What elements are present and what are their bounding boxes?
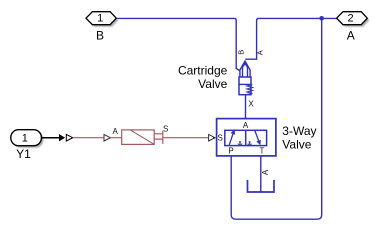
- svg-text:A: A: [243, 121, 249, 130]
- cartridge valve spring: [247, 85, 253, 95]
- pilot block port triangle A: [104, 134, 110, 141]
- 3-way valve divider: [245, 130, 247, 145]
- svg-text:S: S: [163, 124, 168, 133]
- svg-text:1: 1: [97, 13, 103, 25]
- red wire to 3-way valve: [163, 137, 208, 139]
- valve left cell blocked port: [238, 143, 242, 145]
- svg-text:Cartridge: Cartridge: [178, 64, 228, 78]
- red wire into block: [111, 137, 122, 139]
- valve S arrow tip mark: [213, 137, 215, 139]
- wire B horizontal/vertical from port B to cartridge valve: [116, 18, 240, 71]
- cartridge valve poppet: [240, 61, 250, 77]
- svg-text:A: A: [347, 29, 355, 43]
- wire P loop: junction down right side, bottom, up to valve P: [231, 18, 322, 219]
- svg-text:T: T: [259, 147, 264, 156]
- svg-text:S: S: [218, 133, 223, 142]
- svg-text:P: P: [228, 147, 233, 156]
- svg-text:A: A: [113, 127, 119, 136]
- svg-text:3-Way: 3-Way: [282, 124, 316, 138]
- port A hexagon 2: [337, 12, 368, 25]
- port B hexagon 1: [86, 12, 116, 25]
- svg-text:A: A: [256, 50, 265, 55]
- port A shadow: [339, 14, 370, 27]
- converter port triangle: [66, 134, 72, 141]
- port Y1 shadow: [13, 132, 44, 148]
- svg-text:2: 2: [348, 13, 354, 25]
- svg-text:Valve: Valve: [282, 138, 311, 152]
- valve right cell arrow A-T: [255, 130, 259, 140]
- svg-text:B: B: [236, 50, 245, 55]
- port B shadow: [88, 14, 118, 27]
- svg-text:Valve: Valve: [198, 77, 227, 91]
- cartridge valve chamber divider: [239, 83, 251, 85]
- signal wire from Y1: [41, 137, 59, 139]
- valve S port triangle: [209, 134, 215, 141]
- pilot block diagonal: [131, 130, 154, 144]
- pilot block body: [122, 130, 155, 145]
- svg-text:B: B: [96, 29, 104, 43]
- port Y1 oval 1: [11, 130, 42, 146]
- wire T drain from 3-way valve to tank: [260, 156, 262, 193]
- svg-text:A: A: [261, 169, 270, 175]
- valve right cell blocked port: [248, 143, 252, 145]
- valve left cell arrow P-A: [229, 134, 233, 145]
- 3-way valve outer box: [217, 119, 276, 156]
- red wire to pilot block: [73, 137, 103, 139]
- svg-text:X: X: [248, 99, 254, 108]
- 3-way valve inner box: [225, 130, 267, 145]
- junction dot: [319, 16, 324, 21]
- tank symbol: [248, 180, 275, 192]
- svg-text:Y1: Y1: [16, 147, 31, 161]
- wire A from cartridge valve up and right to junction and port A: [245, 18, 337, 59]
- svg-text:1: 1: [22, 133, 28, 145]
- cartridge valve body box: [239, 77, 251, 95]
- wire X pilot from cartridge valve to 3-way valve: [245, 95, 247, 119]
- signal arrowhead: [59, 134, 65, 141]
- pilot block fork: [154, 131, 163, 144]
